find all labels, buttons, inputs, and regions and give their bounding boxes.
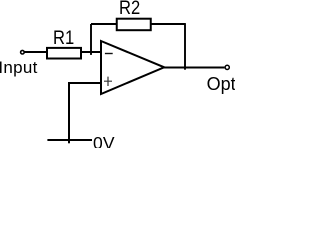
0V rail [47, 139, 92, 141]
label R2 [119, 0, 140, 20]
label 0V [93, 133, 115, 154]
wire non-inverting input vertical to 0V [68, 83, 70, 143]
op-amp plus symbol [104, 77, 112, 86]
wire input to R1 [24, 51, 47, 53]
wire R2 to feedback corner [151, 23, 185, 25]
node junction at R1/op-amp [90, 24, 92, 55]
output terminal [225, 65, 229, 69]
op-amp minus symbol [105, 53, 113, 55]
op-amp U1 [101, 41, 164, 94]
label R1 [53, 27, 74, 50]
resistor R1 [47, 48, 81, 59]
wire op-amp output [164, 67, 225, 69]
resistor R2 [117, 19, 151, 31]
input terminal [21, 50, 25, 54]
label Input [0, 58, 38, 78]
wire R1 to op-amp inverting input [82, 51, 102, 53]
wire feedback vertical to output [184, 23, 186, 70]
wire non-inverting input horizontal [68, 82, 102, 84]
label Opt [207, 74, 236, 95]
wire junction to R2 [91, 23, 117, 25]
